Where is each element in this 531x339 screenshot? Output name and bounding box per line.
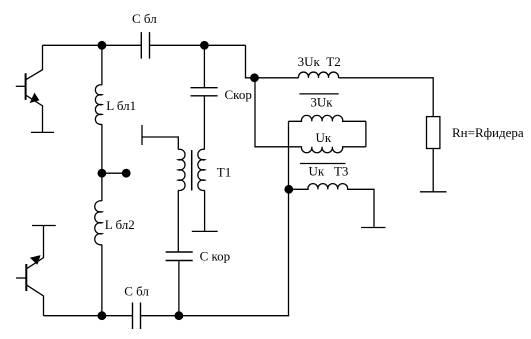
- wire Скор from top rail: [203, 45, 205, 87]
- junction node bottom rail right: [175, 311, 184, 320]
- transistor Q1 emitter arrow: [30, 93, 39, 102]
- resistor Rн: [427, 117, 440, 149]
- svg-text:L бл1: L бл1: [106, 98, 136, 113]
- wire to load: [339, 78, 434, 117]
- ground bar (Т3): [361, 227, 386, 229]
- winding Uк (box bottom): [289, 147, 366, 153]
- transistor Q2 emitter arrow: [31, 256, 41, 265]
- wire node stub: [102, 172, 126, 174]
- wire C кор to bottom rail: [178, 261, 180, 316]
- ground bar (T1): [192, 230, 218, 232]
- transformer T1 core: [191, 150, 193, 191]
- winding Uк Т3: [289, 184, 374, 227]
- capacitor C бл (bottom): [133, 303, 141, 330]
- transformer T1 primary winding: [178, 149, 185, 190]
- overline Uк Т3: [300, 163, 346, 165]
- wire L бл2 to bottom rail: [101, 245, 103, 316]
- transistor Q1 emitter: [26, 95, 43, 132]
- winding Uк (box top): [289, 115, 366, 121]
- svg-text:С бл: С бл: [124, 284, 149, 299]
- svg-text:Uк Т3: Uк Т3: [309, 164, 349, 179]
- junction node stub end: [122, 169, 131, 178]
- wire bottom rail right segment: [141, 315, 290, 317]
- junction node mid left: [98, 169, 107, 178]
- junction node feed: [250, 73, 259, 82]
- transistor Q2 base bar: [25, 264, 27, 291]
- emitter terminal bar Q2: [32, 225, 56, 227]
- svg-text:Rн=Rфидера: Rн=Rфидера: [452, 125, 524, 140]
- junction node top rail right: [200, 41, 209, 50]
- wire T1 secondary to ground: [204, 190, 206, 231]
- svg-text:L бл2: L бл2: [105, 217, 135, 232]
- capacitor C кор: [166, 252, 193, 261]
- ground bar (load): [420, 191, 447, 193]
- svg-text:С кор: С кор: [200, 249, 231, 264]
- transistor Q2 base lead: [16, 277, 26, 279]
- overline 3Uк: [299, 93, 338, 95]
- wire Скор to T1 secondary: [203, 96, 205, 150]
- svg-text:3Uк Т2: 3Uк Т2: [298, 54, 341, 69]
- inductor L бл2: [95, 201, 102, 245]
- wire from top rail to L бл1: [101, 45, 103, 85]
- transistor Q1 collector wire: [26, 45, 43, 80]
- junction node Т3 tap: [284, 185, 293, 194]
- wire resistor to ground: [432, 149, 434, 192]
- transistor Q1 base lead: [16, 85, 26, 87]
- wire top-right corner drop: [246, 45, 299, 78]
- wire L бл1 to node: [101, 124, 103, 173]
- inductor L бл1: [95, 85, 102, 125]
- capacitor C бл (top): [141, 32, 149, 59]
- svg-text:3Uк: 3Uк: [310, 95, 333, 110]
- svg-text:Скор: Скор: [225, 87, 252, 102]
- capacitor Скор: [191, 88, 218, 96]
- wire input to T1 primary: [142, 137, 178, 150]
- wire T1 primary to C кор: [177, 190, 179, 252]
- wire box right edge: [365, 121, 367, 147]
- wire node to box feed: [255, 78, 289, 147]
- junction node bottom rail left: [98, 311, 107, 320]
- transistor Q1 base bar: [25, 73, 27, 100]
- junction node top rail left: [98, 41, 107, 50]
- wire top rail left segment: [43, 44, 142, 46]
- wire node to L бл2: [101, 173, 103, 201]
- wire top rail right segment: [150, 44, 246, 46]
- svg-text:Uк: Uк: [316, 130, 332, 145]
- transformer T1 secondary winding: [198, 149, 205, 190]
- wire bottom rail left segment: [44, 315, 133, 317]
- inductor 3Uк Т2 winding: [298, 72, 338, 78]
- wire box left edge down to bottom rail: [288, 121, 290, 315]
- svg-text:С бл: С бл: [132, 11, 157, 26]
- emitter terminal bar Q1: [31, 131, 54, 133]
- transistor Q2 emitter wire: [26, 226, 43, 269]
- svg-text:Т1: Т1: [217, 165, 231, 180]
- transistor Q2 collector: [26, 285, 43, 316]
- input terminal bar: [141, 125, 143, 145]
